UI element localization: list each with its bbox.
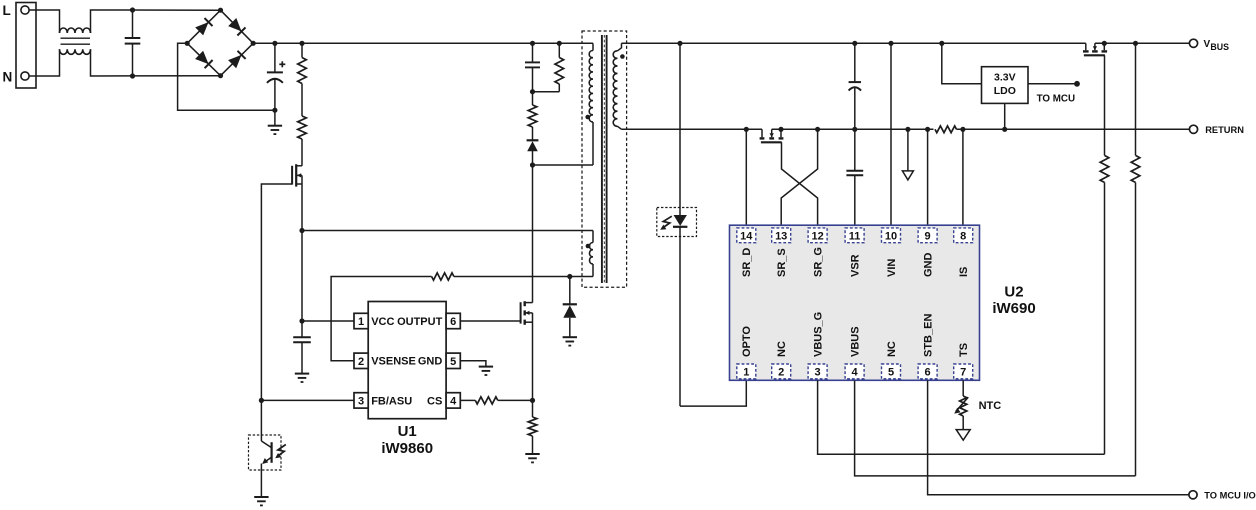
wire vsense to aux winding — [454, 276, 593, 278]
VCC capacitor C3 — [293, 336, 311, 338]
bridge diode D1 (left to top) — [195, 22, 208, 35]
svg-text:NTC: NTC — [979, 400, 1002, 412]
wire bridge negative loop — [178, 43, 275, 110]
svg-text:TO MCU I/O: TO MCU I/O — [1204, 490, 1255, 500]
svg-text:13: 13 — [775, 230, 787, 242]
common-mode choke L1 top winding — [60, 28, 91, 33]
LDO output endpoint — [1074, 81, 1080, 87]
wire — [301, 84, 303, 117]
shunt resistor R8 — [935, 126, 957, 133]
auxiliary polarity dot — [586, 244, 591, 249]
wire clamp to primary bottom — [533, 164, 594, 166]
resistor R5 sense — [532, 400, 534, 417]
svg-text:TO MCU: TO MCU — [1037, 93, 1075, 104]
startup resistor R2 — [298, 116, 307, 139]
wire SR gate crossover — [782, 142, 818, 225]
U2 pin 12 SR_G — [808, 228, 827, 243]
wire LED to OPTO pin 1 — [680, 380, 746, 406]
U2 pin 13 SR_S — [772, 228, 791, 243]
svg-text:VBUS_G: VBUS_G — [813, 312, 825, 357]
NTC return arrow — [962, 416, 964, 430]
node CS — [530, 398, 535, 403]
node LDO ground — [1002, 127, 1007, 132]
svg-text:6: 6 — [450, 316, 456, 328]
svg-text:SR_G: SR_G — [813, 247, 825, 277]
svg-text:7: 7 — [960, 367, 966, 379]
svg-text:CS: CS — [427, 395, 442, 407]
wire snubber join — [533, 91, 560, 93]
startup resistor R1 — [299, 41, 304, 46]
svg-text:3: 3 — [815, 367, 821, 379]
node VCC pin — [299, 318, 304, 323]
bridge rectifier BR1 — [187, 10, 220, 43]
svg-text:GND: GND — [923, 253, 935, 278]
wire STB_EN pin 6 to MCU — [928, 380, 1190, 494]
svg-text:4: 4 — [852, 367, 859, 379]
U2 pin 9 GND — [918, 228, 937, 243]
controller U2 iW690 body — [730, 225, 980, 380]
U1 pin 2 box — [354, 353, 368, 368]
wire aux winding top to VCC node — [302, 230, 593, 232]
wire RETURN rail left — [622, 128, 763, 130]
U2 pin 11 VSR — [845, 228, 864, 243]
transformer T1 dashed outline — [582, 31, 627, 287]
wire CS pin — [460, 399, 475, 401]
wire choke bottom to bridge — [91, 49, 221, 76]
wire DC rail primary — [253, 42, 593, 44]
U2 pin 7 TS — [954, 364, 973, 379]
svg-text:GND: GND — [418, 356, 443, 368]
common-mode choke L1 bottom winding — [60, 49, 91, 54]
ground clamp diode — [563, 336, 577, 338]
wire GND to pin 9 — [927, 129, 929, 225]
svg-text:6: 6 — [925, 367, 931, 379]
node GND tap — [925, 127, 930, 132]
node snubber R top — [557, 41, 562, 46]
svg-text:SR_D: SR_D — [741, 248, 753, 277]
node output cap top — [852, 41, 857, 46]
clamp diode D6 — [527, 139, 539, 141]
wire Q1 gate — [261, 184, 292, 400]
svg-text:14: 14 — [740, 230, 753, 242]
svg-text:iW9860: iW9860 — [381, 440, 433, 457]
svg-text:11: 11 — [849, 230, 861, 242]
LED light arrows — [662, 216, 671, 228]
node IS tap — [960, 127, 965, 132]
U2 pin 14 SR_D — [737, 228, 756, 243]
svg-text:IS: IS — [958, 267, 970, 277]
wire L to choke — [29, 10, 59, 33]
U2 pin 8 IS — [954, 228, 973, 243]
svg-text:5: 5 — [450, 356, 456, 368]
svg-text:iW690: iW690 — [992, 300, 1035, 317]
U1 pin 3 box — [354, 393, 368, 408]
svg-text:3.3V: 3.3V — [994, 72, 1016, 84]
clamp resistor R7 — [532, 92, 534, 105]
svg-text:FB/ASU: FB/ASU — [371, 395, 412, 407]
node VIN tap — [888, 41, 893, 46]
primary winding — [592, 43, 594, 50]
node VBUS sense tap — [1133, 41, 1138, 46]
svg-text:L: L — [3, 3, 11, 18]
secondary polarity dot — [620, 54, 625, 59]
wire SR source crossover — [781, 129, 817, 225]
svg-text:BUS: BUS — [1210, 42, 1229, 52]
opto light arrows — [277, 445, 286, 457]
wire VIN to pin 10 — [890, 43, 892, 225]
wire OUTPUT to Q2 gate — [460, 320, 520, 322]
wire VCC to U1 pin 1 — [302, 320, 354, 322]
wire VBUS pin 4 to sense divider — [855, 380, 1136, 476]
snubber resistor R6 — [558, 43, 560, 57]
svg-text:U1: U1 — [398, 423, 417, 440]
snubber capacitor C4 — [532, 43, 534, 62]
svg-text:VIN: VIN — [886, 259, 898, 277]
node LDO input tap — [939, 41, 944, 46]
VBUS sense resistor R10 — [1135, 43, 1137, 155]
U1 pin 6 box — [446, 313, 460, 328]
svg-text:8: 8 — [960, 230, 966, 242]
wire IS to pin 8 — [962, 129, 964, 225]
svg-text:VSENSE: VSENSE — [371, 356, 416, 368]
choke core lines — [61, 37, 91, 39]
svg-text:TS: TS — [958, 343, 970, 357]
node return arrow tap — [905, 127, 910, 132]
wire TS pin 7 — [962, 380, 964, 396]
wire LDO output — [1028, 83, 1077, 85]
node drain — [530, 162, 535, 167]
node load switch source — [1102, 41, 1107, 46]
U2 pin 5 NC — [882, 364, 901, 379]
bridge diode D4 (bottom to right) — [228, 55, 241, 68]
bridge diode D3 (left to bottom) — [195, 51, 209, 64]
ground U1 — [479, 366, 493, 368]
U1 pin 4 box — [446, 393, 460, 408]
svg-text:10: 10 — [885, 230, 897, 242]
svg-text:OUTPUT: OUTPUT — [397, 316, 443, 328]
node SR drain — [744, 127, 749, 132]
svg-text:5: 5 — [888, 367, 894, 379]
wire N to choke — [29, 49, 59, 76]
node SR source — [778, 127, 783, 132]
ground CS — [525, 453, 539, 455]
bridge diode D2 (top to right) — [228, 18, 241, 31]
wire drain — [532, 165, 534, 303]
resistor R3 vsense — [432, 273, 454, 280]
wire choke top to bridge — [91, 10, 221, 33]
node opto LED tap — [677, 41, 682, 46]
wire GND pin to ground — [460, 361, 486, 367]
U1 pin 1 box — [354, 313, 368, 328]
svg-text:VCC: VCC — [371, 316, 394, 328]
NTC thermistor RT1 — [960, 396, 967, 416]
bulk capacitor C2 — [274, 43, 276, 72]
power MOSFET Q2 — [520, 302, 522, 323]
svg-text:NC: NC — [886, 341, 898, 357]
wire LDO ground — [1004, 103, 1006, 128]
U2 pin 1 OPTO — [737, 364, 756, 379]
transformer core — [601, 35, 603, 283]
U2 pin 6 STB_EN — [918, 364, 937, 379]
optocoupler LED dashed box — [657, 208, 697, 237]
gate pull resistor R9 — [1104, 55, 1106, 155]
svg-text:3: 3 — [358, 395, 364, 407]
U2 pin 4 VBUS — [845, 364, 864, 379]
svg-text:9: 9 — [925, 230, 931, 242]
clamp diode D5 — [569, 277, 571, 305]
output capacitor C5 — [854, 43, 856, 81]
svg-text:VSR: VSR — [850, 254, 862, 277]
secondary winding — [618, 43, 622, 51]
ground opto — [254, 496, 268, 498]
ground primary bulk — [274, 110, 276, 125]
wire SR_D to pin 14 — [745, 129, 747, 225]
node SR_S tap — [815, 127, 820, 132]
terminal TO MCU I/O — [1189, 491, 1197, 499]
svg-text:12: 12 — [811, 230, 823, 242]
wire Q2 source to CS node — [532, 313, 534, 401]
U2 pin 10 VIN — [882, 228, 901, 243]
wire opto collector — [260, 400, 262, 441]
U2 pin 3 VBUS_G — [808, 364, 827, 379]
node snubber cap — [530, 41, 535, 46]
wire LDO input — [942, 43, 982, 84]
wire VBUS rail — [622, 42, 1086, 44]
svg-text:RETURN: RETURN — [1205, 125, 1244, 135]
AC input terminal block J1 — [16, 3, 36, 89]
svg-text:2: 2 — [778, 367, 784, 379]
wire FB/ASU to opto — [261, 399, 354, 401]
svg-text:LDO: LDO — [994, 85, 1016, 97]
X capacitor C1 — [132, 10, 134, 38]
wire VBUS rail right — [1095, 42, 1189, 44]
load switch MOSFET Q5 — [1085, 43, 1087, 50]
U2 pin 2 NC — [772, 364, 791, 379]
controller U1 iW9860 body — [368, 302, 446, 419]
startup depletion MOSFET Q1 — [297, 165, 302, 167]
terminal VBUS — [1189, 39, 1197, 47]
svg-text:N: N — [3, 70, 13, 85]
auxiliary winding — [592, 231, 594, 243]
resistor R4 CS — [475, 397, 498, 404]
terminal RETURN — [1189, 125, 1197, 133]
U1 pin 5 box — [446, 353, 460, 368]
ground VCC cap — [295, 373, 309, 375]
node vsense clamp — [567, 274, 572, 279]
svg-text:STB_EN: STB_EN — [923, 314, 935, 357]
svg-text:2: 2 — [358, 356, 364, 368]
svg-text:NC: NC — [776, 341, 788, 357]
svg-text:SR_S: SR_S — [776, 248, 788, 277]
LDO U3 box — [982, 67, 1029, 104]
svg-text:VBUS: VBUS — [850, 326, 862, 357]
VSR capacitor C6 — [854, 129, 856, 170]
wire RETURN rail mid — [772, 128, 934, 130]
node VSR cap — [852, 127, 857, 132]
wire VSENSE to divider — [331, 277, 432, 361]
node FB — [259, 398, 264, 403]
svg-text:OPTO: OPTO — [741, 326, 753, 357]
synchronous rectifier MOSFET Q4 — [761, 129, 763, 137]
wire VBUS_G pin 3 to load switch gate — [818, 380, 1105, 454]
wire opto LED branch — [679, 43, 681, 215]
node VCC aux tap — [299, 228, 304, 233]
return arrow symbol — [907, 129, 909, 171]
svg-text:1: 1 — [743, 367, 749, 379]
primary polarity dot — [585, 115, 590, 120]
wire RETURN rail right — [957, 128, 1190, 130]
optocoupler LED — [674, 215, 687, 226]
optocoupler phototransistor Q3 — [249, 435, 282, 470]
svg-text:1: 1 — [358, 316, 364, 328]
svg-text:U2: U2 — [1004, 284, 1023, 301]
svg-text:4: 4 — [450, 395, 457, 407]
